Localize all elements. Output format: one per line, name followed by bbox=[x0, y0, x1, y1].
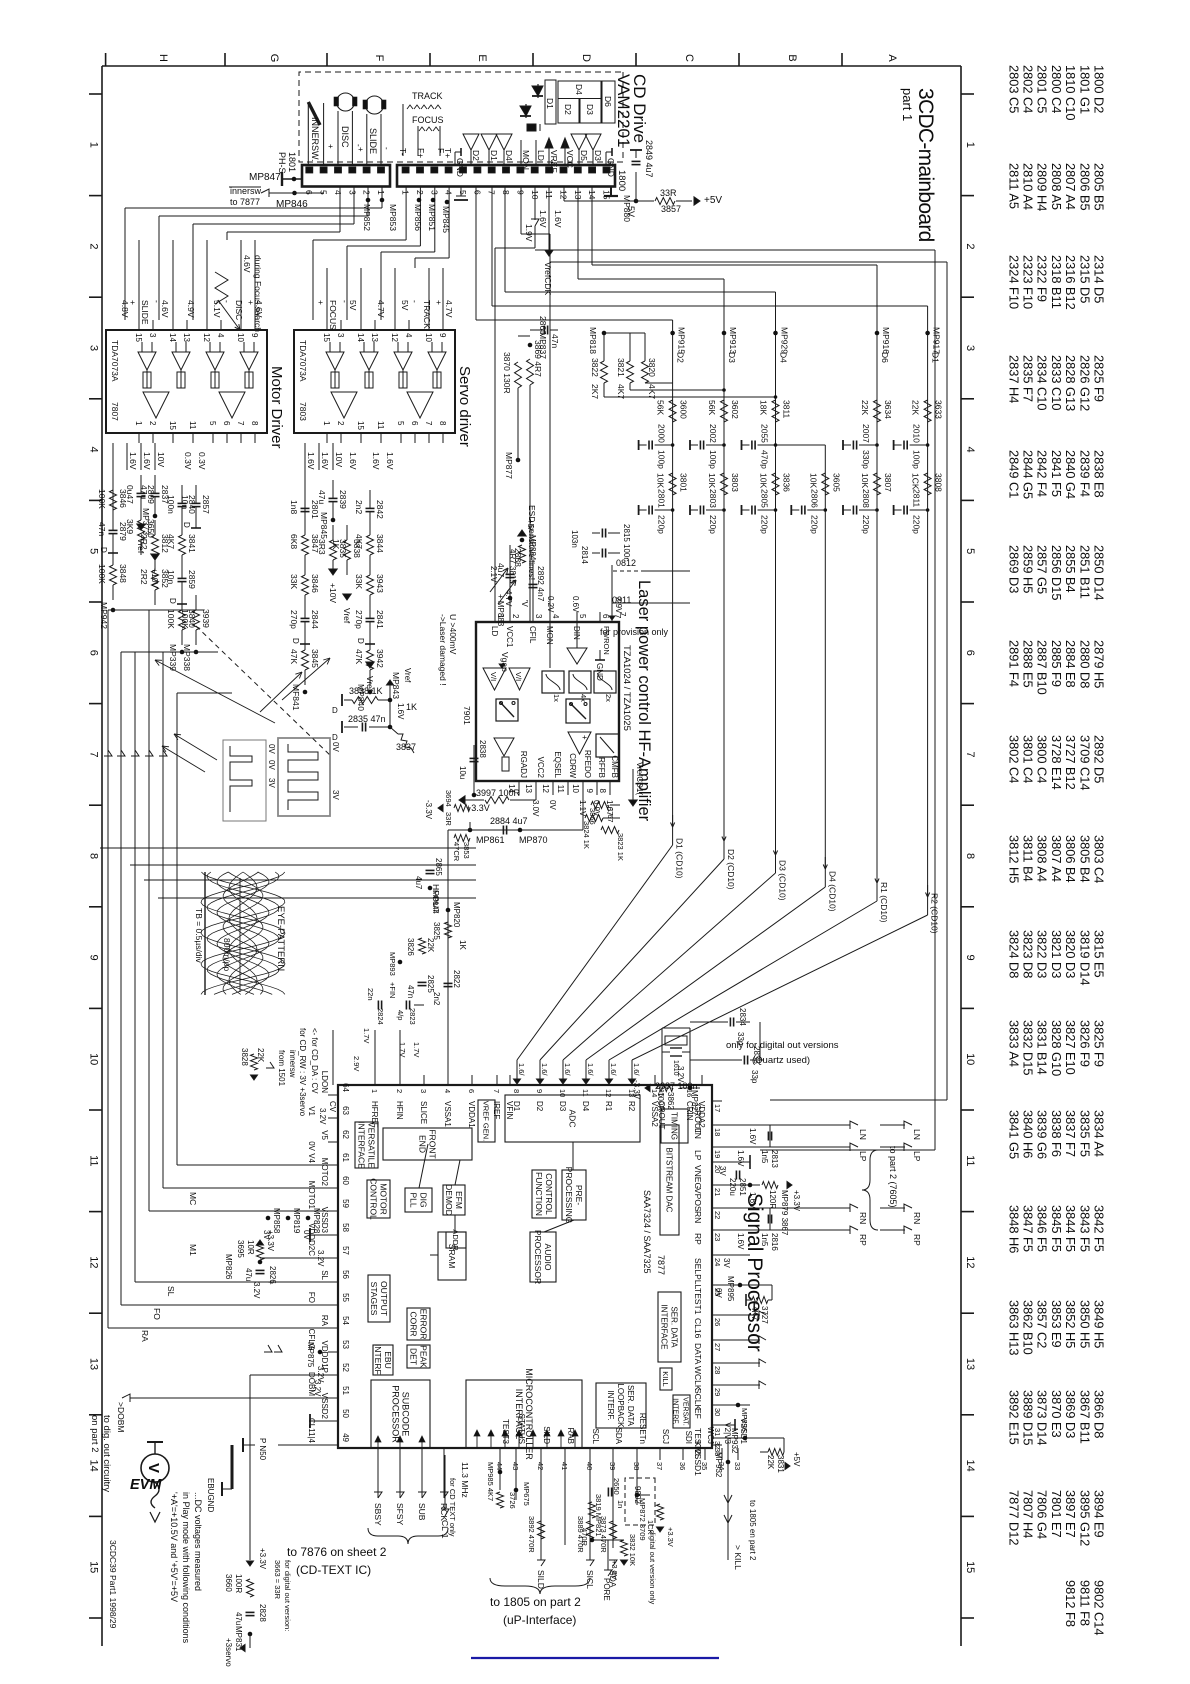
grid row ticks and letters A-H bbox=[105, 53, 107, 66]
capacitor 2801 220p bbox=[671, 508, 675, 512]
test point MP917 bbox=[925, 331, 930, 336]
svg-text:220p: 220p bbox=[861, 515, 871, 534]
svg-text:3820 D3: 3820 D3 bbox=[1063, 930, 1078, 978]
svg-text:2000: 2000 bbox=[657, 424, 667, 443]
resistor 3807 10K bbox=[874, 473, 881, 495]
svg-text:7807 H4: 7807 H4 bbox=[1021, 1490, 1036, 1538]
fan wire R2 (CD10) bbox=[927, 885, 929, 897]
VDDD2C 10R 3695 +3.3V 2826 47u MP826 bbox=[260, 1257, 328, 1259]
svg-text:2865: 2865 bbox=[434, 858, 443, 876]
pin 34 V2|V3 bbox=[721, 1448, 723, 1460]
svg-text:220p: 220p bbox=[809, 515, 819, 534]
svg-text:36: 36 bbox=[678, 1462, 687, 1470]
svg-text:3802 C4: 3802 C4 bbox=[1006, 735, 1021, 783]
svg-text:3831 B14: 3831 B14 bbox=[1035, 1020, 1050, 1075]
svg-text:2824: 2824 bbox=[376, 1008, 385, 1025]
svg-text:2: 2 bbox=[511, 614, 520, 619]
chevrons bbox=[274, 1345, 282, 1352]
svg-text:1.6V: 1.6V bbox=[553, 210, 563, 228]
svg-text:MP929: MP929 bbox=[780, 327, 790, 354]
svg-text:->Laser damaged !: ->Laser damaged ! bbox=[438, 614, 448, 686]
svg-text:from 1501: from 1501 bbox=[277, 1050, 286, 1087]
svg-text:3CDC39 Part1 1998/29: 3CDC39 Part1 1998/29 bbox=[108, 1540, 118, 1629]
wire bbox=[112, 550, 114, 565]
svg-text:VCC1: VCC1 bbox=[505, 626, 514, 648]
sub-block PRE- PROCESSING bbox=[562, 1170, 586, 1220]
connector 1801 part bbox=[302, 165, 390, 187]
svg-text:2887 100n: 2887 100n bbox=[655, 1081, 698, 1091]
svg-text:3849 H5: 3849 H5 bbox=[1092, 1300, 1107, 1348]
IC block Motor Driver 7807 bbox=[106, 330, 267, 433]
pin 17 CROUT bbox=[712, 1100, 722, 1102]
svg-text:5: 5 bbox=[208, 421, 217, 426]
svg-text:D: D bbox=[291, 638, 300, 644]
capacitor 2834 33p bbox=[733, 1018, 735, 1027]
svg-text:15: 15 bbox=[88, 1561, 100, 1573]
svg-text:MP913: MP913 bbox=[728, 327, 738, 354]
svg-text:15: 15 bbox=[356, 421, 365, 430]
svg-text:1801 G1: 1801 G1 bbox=[1077, 65, 1092, 114]
test point MP916 bbox=[875, 331, 880, 336]
svg-text:3828 G10: 3828 G10 bbox=[1049, 1020, 1064, 1076]
svg-text:INTERF.: INTERF. bbox=[373, 1344, 383, 1376]
svg-text:MP820: MP820 bbox=[452, 902, 461, 928]
svg-text:56K: 56K bbox=[707, 400, 717, 415]
svg-text:100K: 100K bbox=[166, 609, 176, 629]
svg-text:3803 C4: 3803 C4 bbox=[1092, 835, 1107, 883]
svg-text:RN: RN bbox=[693, 1211, 703, 1223]
svg-text:RESETn: RESETn bbox=[638, 1413, 647, 1444]
svg-text:10: 10 bbox=[88, 1053, 100, 1065]
svg-text:PROCESSOR: PROCESSOR bbox=[533, 1230, 543, 1284]
svg-text:10K: 10K bbox=[656, 473, 666, 488]
svg-text:D2 (CD10): D2 (CD10) bbox=[726, 849, 736, 890]
svg-text:WCJ: WCJ bbox=[706, 1427, 715, 1444]
svg-text:+: + bbox=[356, 147, 365, 152]
svg-text:2828 G13: 2828 G13 bbox=[1063, 355, 1078, 411]
svg-text:2806: 2806 bbox=[809, 489, 819, 508]
wire bbox=[318, 443, 320, 470]
svg-text:to dig. out circuitry: to dig. out circuitry bbox=[101, 1415, 112, 1492]
svg-text:1.6V: 1.6V bbox=[371, 452, 381, 470]
svg-text:11: 11 bbox=[376, 421, 385, 430]
svg-text:0V: 0V bbox=[714, 1288, 723, 1298]
svg-text:3R3: 3R3 bbox=[317, 539, 327, 555]
svg-text:R1: R1 bbox=[604, 1101, 613, 1112]
svg-text:VrefCDK: VrefCDK bbox=[543, 262, 553, 296]
svg-text:3866 D8: 3866 D8 bbox=[1092, 1390, 1107, 1438]
svg-text:for provision only: for provision only bbox=[600, 627, 669, 637]
svg-text:PORE: PORE bbox=[602, 1578, 611, 1601]
wire connector to ladder channel bbox=[504, 187, 506, 293]
svg-text:RGADJ: RGADJ bbox=[519, 751, 528, 778]
svg-text:D3: D3 bbox=[593, 150, 603, 161]
svg-text:CMFB: CMFB bbox=[610, 755, 619, 778]
svg-text:+: + bbox=[316, 300, 326, 305]
svg-text:LN: LN bbox=[912, 1129, 922, 1140]
capacitor 2879 47n bbox=[109, 529, 118, 531]
sub-block SUBCODE PROCESSOR bbox=[371, 1380, 430, 1448]
wire bbox=[181, 520, 183, 535]
svg-text:33R: 33R bbox=[660, 188, 677, 198]
svg-text:D: D bbox=[332, 733, 338, 742]
svg-text:RFEDO: RFEDO bbox=[583, 750, 592, 778]
svg-text:3821: 3821 bbox=[616, 358, 626, 377]
resistor 3835 3R3 bbox=[330, 540, 337, 560]
svg-text:5: 5 bbox=[458, 190, 468, 195]
capacitor 2860 47n bbox=[547, 326, 549, 335]
svg-text:22K: 22K bbox=[426, 938, 435, 953]
svg-text:3634: 3634 bbox=[883, 400, 893, 419]
pin 15 bbox=[326, 320, 328, 330]
svg-text:D2: D2 bbox=[535, 1101, 544, 1112]
svg-text:D3: D3 bbox=[558, 1101, 567, 1112]
laser pin 13 VCC2 bbox=[535, 781, 537, 795]
svg-text:3633: 3633 bbox=[934, 400, 944, 419]
svg-text:2860: 2860 bbox=[538, 316, 548, 335]
svg-text:D1: D1 bbox=[512, 1101, 521, 1112]
svg-text:330p: 330p bbox=[861, 450, 871, 469]
svg-text:1n8: 1n8 bbox=[289, 500, 299, 514]
svg-text:2841: 2841 bbox=[375, 610, 385, 629]
capacitor 2055 470p bbox=[774, 443, 778, 447]
svg-text:3V: 3V bbox=[262, 1230, 271, 1240]
svg-text:+ MP883: + MP883 bbox=[496, 594, 505, 627]
svg-text:INTERFACE: INTERFACE bbox=[660, 1305, 669, 1350]
KILL resistor 3831 22K +5V MP932 bbox=[722, 1437, 760, 1439]
svg-text:MP826: MP826 bbox=[224, 1254, 233, 1280]
pin 4 bbox=[408, 320, 410, 330]
svg-text:2857 G5: 2857 G5 bbox=[1035, 545, 1050, 594]
svg-text:28: 28 bbox=[713, 1366, 722, 1374]
svg-text:10K: 10K bbox=[707, 473, 717, 488]
eye pattern baseline bbox=[204, 872, 206, 995]
svg-text:1.6/: 1.6/ bbox=[632, 1063, 641, 1076]
sub-block SER. DATA INTERFACE bbox=[658, 1292, 681, 1362]
svg-text:60: 60 bbox=[341, 1176, 350, 1185]
svg-text:INNERSW.: INNERSW. bbox=[310, 117, 320, 162]
wire bbox=[254, 240, 256, 320]
svg-text:HFREF: HFREF bbox=[370, 1101, 379, 1128]
svg-text:2835 F7: 2835 F7 bbox=[1021, 355, 1036, 402]
op-amp cell bbox=[394, 352, 412, 370]
svg-text:6: 6 bbox=[472, 190, 482, 195]
svg-text:2825 F9: 2825 F9 bbox=[1092, 355, 1107, 402]
laser pin 11 CDRW bbox=[567, 781, 569, 795]
svg-text:3848: 3848 bbox=[118, 564, 128, 583]
svg-text:M1: M1 bbox=[188, 1244, 198, 1256]
SLIDE motor symbol bbox=[366, 96, 384, 114]
svg-text:V5: V5 bbox=[320, 1130, 329, 1140]
svg-text:LP: LP bbox=[912, 1151, 922, 1162]
svg-text:MP880: MP880 bbox=[622, 195, 632, 222]
svg-text:2002: 2002 bbox=[708, 424, 718, 443]
svg-text:1.7V: 1.7V bbox=[398, 1042, 407, 1057]
svg-text:7901: 7901 bbox=[462, 706, 472, 725]
svg-text:2840 G4: 2840 G4 bbox=[1063, 450, 1078, 499]
EF test point bbox=[722, 1404, 750, 1406]
pin 27 DATA bbox=[712, 1339, 722, 1341]
svg-text:V1: V1 bbox=[307, 1106, 316, 1116]
svg-text:2859: 2859 bbox=[187, 570, 197, 589]
photodiode triangles with labels bbox=[454, 152, 456, 165]
svg-text:58: 58 bbox=[341, 1223, 350, 1232]
svg-text:2809 H4: 2809 H4 bbox=[1035, 163, 1050, 211]
svg-text:53: 53 bbox=[341, 1340, 350, 1349]
svg-text:2816: 2816 bbox=[770, 1233, 779, 1251]
svg-text:7877: 7877 bbox=[656, 1255, 666, 1275]
svg-text:2814: 2814 bbox=[580, 546, 589, 564]
svg-text:PROCESSING: PROCESSING bbox=[564, 1167, 574, 1224]
svg-text:3.2V: 3.2V bbox=[313, 1380, 322, 1397]
IC 7877 SAA7324 outline bbox=[338, 1085, 712, 1448]
pin 57 VDDD2C bbox=[328, 1257, 338, 1259]
svg-text:VNEG: VNEG bbox=[693, 1165, 703, 1189]
wire bbox=[332, 480, 334, 498]
svg-text:DISC: DISC bbox=[340, 126, 350, 148]
svg-text:3801 C4: 3801 C4 bbox=[1021, 735, 1036, 783]
capacitor 2842 2n2 bbox=[366, 507, 375, 509]
sub-block VREF GEN. bbox=[478, 1100, 495, 1142]
laser switch box 2 bbox=[566, 699, 590, 723]
svg-text:6: 6 bbox=[467, 1089, 476, 1093]
pin 28 WCLK bbox=[712, 1362, 722, 1364]
pin 1 bbox=[326, 433, 328, 443]
pin 18 LN bbox=[712, 1124, 722, 1126]
svg-text:FUNCTION: FUNCTION bbox=[534, 1172, 544, 1216]
pin 15 CROUT bbox=[661, 1075, 663, 1085]
svg-text:2810 A4: 2810 A4 bbox=[1021, 163, 1036, 210]
svg-text:7877 D12: 7877 D12 bbox=[1006, 1490, 1021, 1546]
svg-text:2: 2 bbox=[395, 1089, 404, 1093]
svg-text:11: 11 bbox=[188, 421, 197, 430]
VDDD1P second supply cluster 100R 3660 2828 MP831 bbox=[250, 1374, 328, 1376]
pin 4 VSSA1 bbox=[447, 1075, 449, 1085]
svg-text:RN: RN bbox=[912, 1212, 922, 1224]
svg-text:7: 7 bbox=[236, 421, 245, 426]
svg-text:12: 12 bbox=[964, 1256, 976, 1268]
pin 42 SILD bbox=[540, 1448, 542, 1460]
svg-text:3847 F5: 3847 F5 bbox=[1021, 1205, 1036, 1252]
svg-text:3841: 3841 bbox=[187, 534, 197, 553]
fan wire R1 (CD10) bbox=[876, 871, 878, 883]
svg-text:3727 B12: 3727 B12 bbox=[1063, 735, 1078, 790]
svg-text:3822 D3: 3822 D3 bbox=[1035, 930, 1050, 978]
laser diode symbols bbox=[537, 84, 539, 98]
svg-text:3823 D8: 3823 D8 bbox=[1021, 930, 1036, 978]
capacitor 2811 220p bbox=[926, 508, 930, 512]
wire bbox=[369, 600, 371, 618]
svg-text:1: 1 bbox=[134, 421, 143, 426]
svg-text:2318 B11: 2318 B11 bbox=[1049, 255, 1064, 309]
svg-text:3823 1K: 3823 1K bbox=[616, 833, 625, 861]
svg-text:MP338: MP338 bbox=[182, 644, 192, 671]
svg-text:3833 A4: 3833 A4 bbox=[1006, 1020, 1021, 1067]
svg-text:470R: 470R bbox=[580, 1528, 589, 1547]
ladder channel 3 wire bbox=[775, 333, 777, 873]
resistor 3841 4K7 bbox=[179, 535, 186, 555]
ladder channel 4 wire bbox=[824, 445, 826, 887]
svg-text:4K7: 4K7 bbox=[166, 534, 176, 549]
svg-text:2803 C5: 2803 C5 bbox=[1006, 65, 1021, 113]
svg-text:3695: 3695 bbox=[236, 1240, 245, 1258]
pin 15 bbox=[138, 320, 140, 330]
wire bbox=[304, 520, 306, 535]
pin 25 TEST1 bbox=[712, 1284, 722, 1286]
pin 22 RN bbox=[712, 1207, 722, 1209]
chevron arrows on buses bbox=[104, 750, 112, 756]
capacitor 2844 270p bbox=[301, 617, 310, 619]
svg-text:3870 130R: 3870 130R bbox=[502, 352, 512, 394]
pin 6 bbox=[226, 433, 228, 443]
capacitor 2803 220p bbox=[722, 508, 726, 512]
laser input amp top bbox=[567, 648, 587, 664]
svg-text:3.2V: 3.2V bbox=[252, 1282, 261, 1299]
ladder channel 5 wire bbox=[876, 333, 878, 901]
svg-text:2x: 2x bbox=[604, 694, 613, 702]
pin 2 HFIN bbox=[399, 1075, 401, 1085]
MP828 MP819 MP858 points bbox=[306, 1216, 311, 1221]
svg-text:47K: 47K bbox=[354, 649, 364, 664]
svg-text:15: 15 bbox=[602, 190, 612, 200]
svg-text:2801: 2801 bbox=[657, 489, 667, 508]
svg-text:SCJ: SCJ bbox=[661, 1429, 670, 1444]
svg-text:MP837: MP837 bbox=[538, 332, 548, 359]
svg-text:5: 5 bbox=[578, 614, 587, 619]
svg-text:29: 29 bbox=[713, 1388, 722, 1396]
svg-text:1.6/: 1.6/ bbox=[540, 1063, 549, 1076]
svg-text:MP827: MP827 bbox=[690, 1090, 699, 1116]
22K 3826 2825 47n MP893 bbox=[419, 938, 426, 954]
svg-text:4/p: 4/p bbox=[396, 1010, 405, 1020]
pin 30 EF bbox=[712, 1404, 722, 1406]
svg-text:2834 C10: 2834 C10 bbox=[1035, 355, 1050, 411]
pin 2 bbox=[340, 433, 342, 443]
svg-text:3600: 3600 bbox=[679, 400, 689, 419]
svg-text:3832 10K: 3832 10K bbox=[628, 1534, 637, 1566]
svg-text:3845: 3845 bbox=[310, 649, 320, 668]
svg-text:MP844: MP844 bbox=[431, 890, 440, 914]
open terminals SILD SICL SDA PORE bbox=[537, 1560, 545, 1566]
svg-text:SUB: SUB bbox=[417, 1503, 427, 1521]
pin 10 D3 bbox=[562, 1075, 564, 1085]
svg-text:3.2V: 3.2V bbox=[318, 1108, 327, 1125]
capacitor 2809 0u47 bbox=[137, 492, 146, 494]
svg-text:3728 E14: 3728 E14 bbox=[1049, 735, 1064, 790]
svg-text:62: 62 bbox=[341, 1130, 350, 1139]
svg-text:1x: 1x bbox=[552, 694, 561, 702]
svg-text:5V: 5V bbox=[400, 300, 410, 311]
wire bbox=[312, 268, 314, 320]
pin 14 VSSA2 bbox=[654, 1075, 656, 1085]
svg-text:13: 13 bbox=[524, 784, 533, 793]
svg-text:MP916: MP916 bbox=[881, 327, 891, 354]
svg-text:2322 F9: 2322 F9 bbox=[1035, 255, 1050, 302]
svg-text:3869 D3: 3869 D3 bbox=[1063, 1390, 1078, 1438]
svg-text:2: 2 bbox=[88, 243, 100, 249]
svg-text:VERSATILE: VERSATILE bbox=[367, 1122, 377, 1168]
svg-text:SLIDE: SLIDE bbox=[140, 300, 150, 325]
svg-text:47u: 47u bbox=[244, 1268, 253, 1281]
svg-text:4.6V: 4.6V bbox=[160, 300, 170, 318]
svg-text:3863 H13: 3863 H13 bbox=[1006, 1300, 1021, 1356]
svg-text:14: 14 bbox=[964, 1459, 976, 1471]
resistor 3821 4K7 bbox=[627, 361, 634, 383]
crystal 1610 with 2834 2833 33p bbox=[661, 1028, 663, 1085]
wire connector to ladder channel bbox=[591, 187, 593, 266]
svg-text:+5V: +5V bbox=[792, 1452, 801, 1467]
svg-text:SUBCODE: SUBCODE bbox=[401, 1392, 411, 1437]
svg-text:0V: 0V bbox=[331, 742, 340, 752]
laser pin 8 CMFB bbox=[609, 781, 611, 795]
svg-text:100p: 100p bbox=[657, 450, 667, 469]
dashed annotation diagonal bbox=[196, 626, 332, 757]
svg-text:63: 63 bbox=[341, 1106, 350, 1115]
resistor 3602 56K bbox=[721, 400, 728, 422]
svg-text:33p: 33p bbox=[750, 1070, 759, 1084]
svg-text:1.6/: 1.6/ bbox=[517, 1063, 526, 1076]
svg-text:EQSEL: EQSEL bbox=[553, 751, 562, 778]
svg-text:35: 35 bbox=[700, 1462, 709, 1470]
svg-text:VSSD1: VSSD1 bbox=[739, 1418, 748, 1445]
svg-text:VPOS: VPOS bbox=[693, 1188, 703, 1212]
svg-text:2859 H5: 2859 H5 bbox=[1021, 545, 1036, 593]
svg-text:-3.3V: -3.3V bbox=[424, 800, 433, 820]
svg-text:Motor Driver: Motor Driver bbox=[268, 366, 285, 449]
resistor 3846 33K bbox=[302, 575, 309, 595]
svg-text:4R7: 4R7 bbox=[508, 549, 517, 564]
svg-text:47u: 47u bbox=[317, 490, 327, 504]
wire bbox=[332, 525, 334, 540]
svg-text:49: 49 bbox=[341, 1433, 350, 1442]
svg-text:+3.3V: +3.3V bbox=[666, 1527, 675, 1547]
sub-block BITSTREAM DAC bbox=[660, 1125, 679, 1235]
fan wire D1 (CD10) bbox=[672, 815, 674, 827]
svg-text:3838 1K: 3838 1K bbox=[349, 686, 383, 696]
svg-text:1K: 1K bbox=[458, 940, 467, 950]
wire bbox=[181, 485, 183, 503]
svg-text:3801: 3801 bbox=[679, 473, 689, 492]
svg-text:1801: 1801 bbox=[287, 152, 297, 172]
svg-text:2315 D5: 2315 D5 bbox=[1077, 255, 1092, 303]
svg-text:1.7V: 1.7V bbox=[412, 1042, 421, 1057]
svg-text:ERROR: ERROR bbox=[419, 1309, 429, 1340]
DOBM wire to dig out bbox=[130, 1397, 328, 1399]
svg-text:8: 8 bbox=[501, 190, 511, 195]
svg-text:VCC2: VCC2 bbox=[536, 757, 545, 779]
svg-text:8: 8 bbox=[512, 1089, 521, 1093]
svg-text:EBU: EBU bbox=[383, 1351, 393, 1368]
svg-text:3: 3 bbox=[347, 190, 357, 195]
svg-text:3806 B4: 3806 B4 bbox=[1063, 835, 1078, 883]
svg-text:0812: 0812 bbox=[616, 558, 636, 568]
test point MF841 bbox=[303, 690, 308, 695]
svg-text:SLICE: SLICE bbox=[419, 1101, 428, 1124]
svg-text:24: 24 bbox=[713, 1258, 722, 1266]
fan wire D4 (CD10) bbox=[824, 857, 826, 869]
svg-text:3835 F5: 3835 F5 bbox=[1077, 1110, 1092, 1157]
resistor 3848 100K bbox=[110, 565, 117, 585]
svg-text:220p: 220p bbox=[708, 515, 718, 534]
svg-text:D: D bbox=[580, 54, 592, 62]
svg-text:4: 4 bbox=[88, 447, 100, 453]
svg-text:2884 4u7: 2884 4u7 bbox=[490, 816, 528, 826]
svg-text:2851: 2851 bbox=[738, 1178, 747, 1196]
svg-text:only for digital out versions: only for digital out versions bbox=[726, 1040, 839, 1051]
resistor 3600 56K bbox=[669, 400, 676, 422]
brace uP interface bbox=[490, 1578, 590, 1594]
svg-text:7801 E7: 7801 E7 bbox=[1049, 1490, 1064, 1538]
